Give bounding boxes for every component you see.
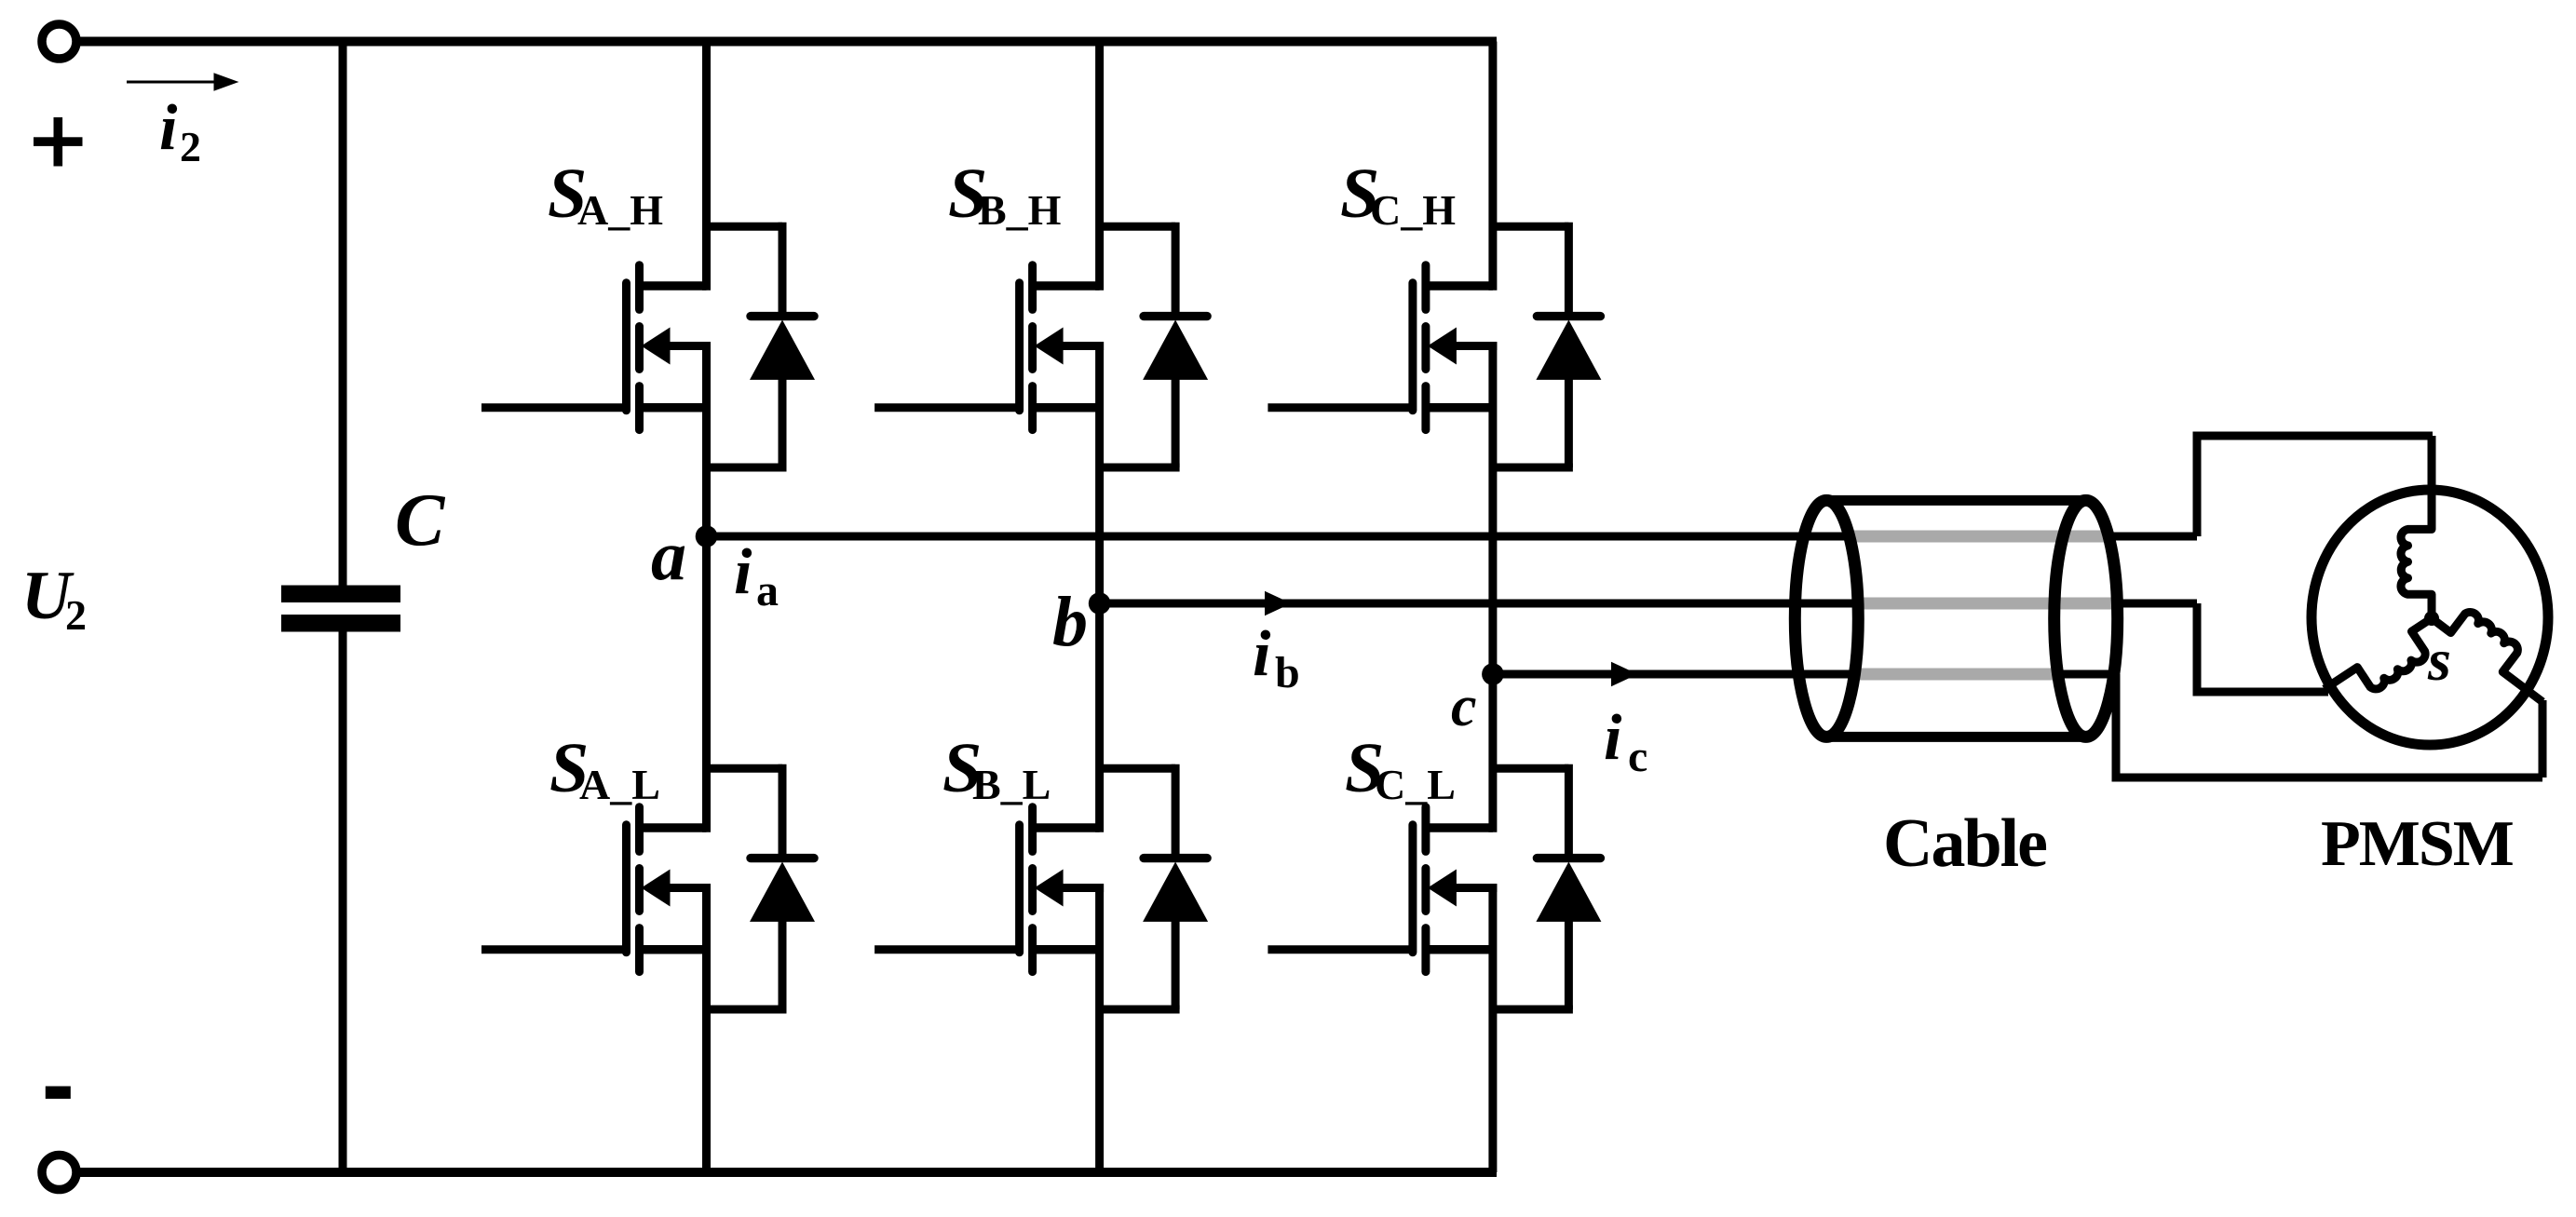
- top rail (DC+ bus): [75, 37, 1497, 47]
- wire capacitor branch bottom: [339, 631, 347, 1172]
- wire phase b output: [1100, 600, 2197, 608]
- cable cylinder top line: [1826, 495, 2085, 506]
- terminal + (top left circle): [42, 24, 76, 59]
- wire phase leg B lower bus: [1095, 884, 1104, 1172]
- wire phase c to motor: down: [2112, 674, 2121, 778]
- node b: [1089, 592, 1111, 615]
- PMSM winding phase a (top): [2401, 436, 2432, 618]
- svg-text:s: s: [2427, 627, 2451, 693]
- svg-text:C_L: C_L: [1375, 761, 1456, 808]
- svg-text:A_L: A_L: [579, 761, 660, 808]
- minus sign: [46, 1087, 71, 1100]
- node a: [696, 525, 718, 548]
- svg-text:2: 2: [180, 123, 201, 170]
- wire phase leg A mid bus: [702, 342, 711, 832]
- wire capacitor branch top: [339, 42, 347, 587]
- svg-text:B_L: B_L: [972, 761, 1051, 808]
- diode D-QC_L (anti-parallel): [1493, 764, 1569, 773]
- star point node s: [2424, 611, 2439, 626]
- arrow i_b on phase b: [1265, 591, 1292, 615]
- transistor QC_H (S_C_H) MOSFET: [1408, 283, 1417, 411]
- svg-text:i: i: [734, 536, 752, 608]
- transistor QB_H (S_B_H) MOSFET: [1015, 283, 1024, 411]
- cable conductor a (gray): [1850, 531, 2107, 543]
- capacitor C plates: [281, 586, 400, 603]
- wire phase leg B upper bus: [1095, 42, 1104, 291]
- wire phase leg C mid bus: [1488, 342, 1497, 832]
- svg-text:i: i: [1253, 618, 1271, 690]
- arrow i2: [127, 81, 216, 84]
- svg-text:c: c: [1628, 732, 1647, 781]
- terminal - (bottom left circle): [42, 1156, 76, 1190]
- wire phase leg C upper bus: [1488, 42, 1497, 291]
- node c: [1482, 663, 1504, 685]
- cable cylinder bottom line: [1826, 732, 2085, 742]
- svg-text:C_H: C_H: [1370, 186, 1456, 234]
- svg-text:C: C: [395, 480, 446, 561]
- svg-text:Cable: Cable: [1883, 805, 2046, 882]
- transistor QA_H (S_A_H) MOSFET: [622, 283, 630, 411]
- diode D-QB_L (anti-parallel): [1100, 764, 1176, 773]
- wire phase b to motor: down: [2193, 603, 2202, 692]
- svg-text:i: i: [1604, 702, 1622, 774]
- wire phase a output: [707, 533, 2198, 541]
- wire phase leg B mid bus: [1095, 342, 1104, 832]
- svg-text:A_H: A_H: [577, 186, 663, 234]
- diode D-QA_L (anti-parallel): [707, 764, 783, 773]
- transistor QB_L (S_B_L) MOSFET: [1015, 825, 1024, 953]
- plus sign: [34, 137, 83, 146]
- svg-text:c: c: [1451, 675, 1477, 738]
- cable conductor c (gray): [1852, 669, 2060, 681]
- svg-text:i: i: [159, 92, 178, 164]
- wire phase a to motor: across: [2193, 432, 2434, 440]
- arrow i_c on phase c: [1611, 662, 1638, 686]
- svg-text:a: a: [651, 517, 686, 595]
- svg-text:B_H: B_H: [978, 186, 1062, 234]
- cable left ellipse: [1795, 500, 1858, 737]
- wire phase c to motor: up to winding: [2539, 700, 2547, 778]
- diode D-QA_H (anti-parallel): [707, 223, 783, 231]
- PMSM winding phase b (lower left): [2325, 618, 2432, 689]
- wire phase leg C lower bus: [1488, 884, 1497, 1172]
- svg-text:a: a: [756, 566, 779, 615]
- wire phase leg A lower bus: [702, 884, 711, 1172]
- cable right ellipse: [2054, 500, 2118, 737]
- transistor QC_L (S_C_L) MOSFET: [1408, 825, 1417, 953]
- wire phase b to motor: across to winding: [2193, 688, 2329, 696]
- wire phase leg A upper bus: [702, 42, 711, 291]
- svg-text:b: b: [1052, 583, 1088, 661]
- transistor QA_L (S_A_L) MOSFET: [622, 825, 630, 953]
- wire phase c output: [1493, 670, 2116, 679]
- cable conductor b (gray): [1858, 598, 2112, 610]
- bottom rail (DC- bus): [75, 1168, 1497, 1177]
- wire phase c to motor: across bottom: [2112, 774, 2543, 782]
- diode D-QC_H (anti-parallel): [1493, 223, 1569, 231]
- svg-text:2: 2: [65, 591, 87, 639]
- PMSM winding phase c (lower right): [2432, 612, 2542, 701]
- wire phase a to motor: up: [2193, 436, 2202, 536]
- PMSM stator circle: [2312, 490, 2548, 745]
- diode D-QB_H (anti-parallel): [1100, 223, 1176, 231]
- svg-text:b: b: [1275, 648, 1300, 697]
- svg-text:PMSM: PMSM: [2321, 808, 2514, 880]
